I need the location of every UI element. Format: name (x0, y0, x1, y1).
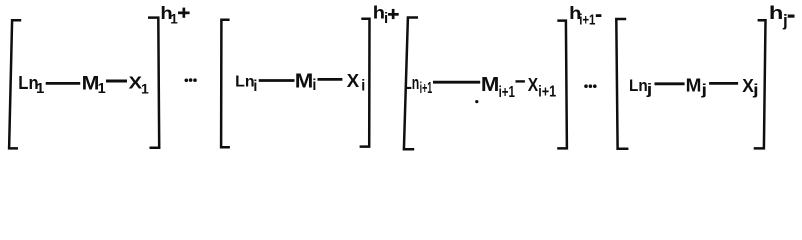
bond Mi+1-Xi+1 (516, 80, 525, 82)
svg-text:M: M (481, 74, 500, 96)
left bracket group 4 (616, 19, 628, 149)
svg-text:i: i (253, 78, 257, 95)
svg-text:M: M (686, 76, 702, 96)
bond Mi-Xi (318, 78, 343, 81)
svg-text:1: 1 (98, 81, 106, 97)
svg-text:j: j (645, 81, 652, 98)
left bracket group 3 (404, 18, 418, 150)
svg-text:i: i (384, 10, 388, 27)
svg-text:Ln: Ln (404, 73, 419, 93)
right bracket group 2 (360, 19, 370, 147)
ellipsis dots between group 1 and 2 (185, 79, 189, 83)
right bracket group 4 (754, 20, 766, 148)
svg-text:Ln: Ln (235, 74, 255, 91)
left bracket group 2 (221, 20, 230, 148)
svg-text:X: X (347, 71, 359, 91)
svg-text:j: j (700, 82, 707, 99)
bond Lni+1-Mi+1 (433, 81, 480, 84)
svg-text:j: j (752, 82, 759, 99)
svg-text:i+1: i+1 (579, 12, 595, 29)
svg-text:i+1: i+1 (420, 80, 433, 97)
svg-text:M: M (295, 70, 314, 92)
svg-text:i+1: i+1 (538, 83, 556, 100)
svg-text:i+1: i+1 (499, 84, 516, 101)
right bracket group 1 (148, 18, 159, 148)
bond Lnj-Mj (655, 82, 685, 85)
ellipsis dots between group 3 and 4 (584, 84, 588, 88)
svg-text:1: 1 (36, 80, 44, 97)
bond M1-X1 (106, 80, 127, 83)
svg-text:X: X (528, 75, 538, 95)
stray ink dot below bond (475, 100, 478, 103)
bond Mj-Xj (709, 82, 738, 85)
svg-text:Ln: Ln (629, 77, 648, 95)
svg-text:h: h (769, 3, 784, 23)
right bracket group 3 (557, 21, 567, 149)
bond Ln1-M1 (46, 82, 80, 85)
bond Lni-Mi (259, 79, 295, 82)
svg-text:i: i (312, 77, 316, 94)
svg-text:1: 1 (141, 81, 149, 97)
left bracket group 1 (9, 20, 21, 148)
svg-text:1: 1 (170, 12, 178, 27)
svg-text:i: i (361, 77, 365, 94)
svg-text:j: j (782, 11, 788, 30)
